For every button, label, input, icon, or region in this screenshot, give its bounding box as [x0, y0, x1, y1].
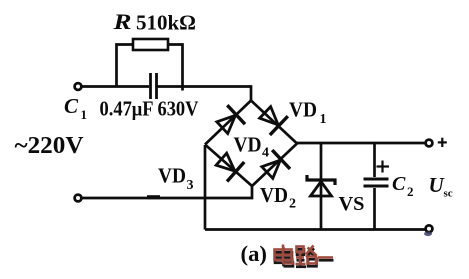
zener diode VS: [307, 175, 335, 196]
terminal top-left: [75, 83, 82, 90]
svg-text:VD: VD: [289, 98, 317, 122]
blue print smudge: [424, 232, 432, 237]
terminal bottom-left: [75, 195, 82, 202]
svg-text:R: R: [112, 9, 131, 34]
diode VD1 (top-right side, pointing to right corner): [256, 103, 288, 135]
wire C1 to bridge top corner: [158, 87, 252, 102]
svg-text:sc: sc: [444, 188, 453, 200]
plus sign at output terminal: [438, 138, 447, 147]
wire bridge right corner to + terminal: [297, 142, 426, 145]
wire top AC from terminal to C1: [82, 85, 149, 88]
svg-text:1: 1: [81, 107, 88, 122]
wire bridge left corner down to bottom rail: [204, 145, 207, 230]
svg-text:0.47μF 630V: 0.47μF 630V: [100, 97, 199, 121]
wire C2 branch top: [373, 143, 376, 177]
diode VD3 (bottom-left side, pointing to bottom corner): [213, 149, 244, 181]
svg-text:VS: VS: [339, 194, 365, 215]
diode VD2 (bottom-right side, pointing to right corner): [258, 150, 290, 182]
svg-text:C: C: [64, 94, 79, 118]
wire bridge side bottom-left (node DC-left to node AC-bottom): [205, 145, 252, 187]
caption chinese 电路一 black offset layer: [275, 247, 334, 266]
svg-text:2: 2: [407, 184, 414, 199]
plus sign of C2: [377, 161, 390, 173]
svg-text:VD: VD: [234, 133, 262, 157]
wire lower AC from terminal to bridge bottom stub: [82, 186, 252, 198]
svg-text:C: C: [392, 173, 406, 195]
terminal output minus: [426, 225, 433, 232]
wire C2 branch bottom: [373, 188, 376, 230]
wire bridge side top-left (node AC-top to node DC-left): [205, 101, 251, 145]
svg-text:~220V: ~220V: [15, 133, 85, 159]
wire bridge side bottom-right (node DC-right to node AC-bottom): [252, 144, 297, 187]
svg-text:VD: VD: [158, 164, 186, 188]
wire R loop left vertical: [117, 45, 134, 87]
wire bridge side top-right (node AC-top to node DC-right): [251, 101, 297, 144]
svg-text:510kΩ: 510kΩ: [136, 11, 196, 35]
wire R loop right vertical: [168, 45, 183, 91]
svg-text:VD: VD: [260, 183, 288, 207]
wire thickening artifact on lower AC wire: [147, 195, 160, 199]
capacitor C2 plates: [364, 179, 389, 186]
wire VS branch vertical: [320, 143, 323, 230]
diode VD4 (top-left side, pointing to top corner): [213, 105, 245, 137]
svg-text:(a): (a): [241, 241, 268, 266]
caption chinese 电路一 red layer: [275, 245, 334, 265]
terminal output plus: [426, 140, 433, 147]
svg-text:1: 1: [320, 112, 327, 127]
svg-text:3: 3: [187, 178, 194, 193]
capacitor C1 plates: [151, 73, 157, 99]
resistor R1 body: [133, 39, 168, 50]
svg-text:4: 4: [262, 146, 269, 161]
wire bottom rail: [205, 228, 426, 231]
svg-text:2: 2: [289, 197, 296, 212]
